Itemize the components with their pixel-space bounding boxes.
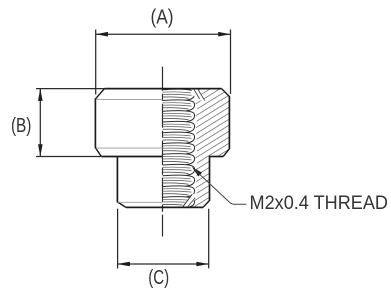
thread leader arrow <box>192 167 202 177</box>
thread leader line <box>194 169 247 204</box>
dimension C line <box>118 263 209 265</box>
dimension C extension line right <box>208 209 210 269</box>
svg-text:(C): (C) <box>148 267 169 289</box>
dimension C extension line left <box>117 209 119 269</box>
dimension B arrow bottom <box>38 144 43 156</box>
svg-text:(A): (A) <box>151 7 174 29</box>
barrel left edge <box>116 157 118 203</box>
dimension A extension line right <box>230 30 232 95</box>
flange bottom-right chamfer <box>223 149 229 157</box>
flange top-left chamfer <box>95 89 104 99</box>
centerline <box>162 67 164 237</box>
thread teeth <box>163 89 195 207</box>
dimension A arrow right <box>218 32 230 37</box>
hole bottom chamfer <box>181 193 198 207</box>
flange right edge <box>228 96 230 149</box>
barrel bottom tangent line <box>118 201 163 203</box>
dimension B line <box>39 89 41 157</box>
dimension B extension line bottom <box>36 156 101 158</box>
dimension A extension line left <box>95 30 97 95</box>
svg-text:M2x0.4 THREAD: M2x0.4 THREAD <box>250 193 389 214</box>
flange top-right chamfer <box>222 89 230 97</box>
flange bottom-left chamfer <box>95 148 101 157</box>
hole top chamfer <box>191 89 206 101</box>
flange left edge <box>94 99 96 149</box>
dimension A line <box>96 33 231 35</box>
dimension A arrow left <box>96 32 108 37</box>
dimension C arrow left <box>118 262 130 267</box>
dimension C arrow right <box>196 262 208 267</box>
barrel right edge section <box>209 156 211 201</box>
section hatch <box>160 34 260 270</box>
flange bottom cut edge <box>210 156 224 158</box>
barrel bottom edge <box>126 206 203 208</box>
dimension B arrow top <box>38 89 43 101</box>
flange top tangent line <box>96 98 163 100</box>
dimension B extension line top <box>36 88 105 90</box>
svg-text:(B): (B) <box>11 115 32 137</box>
flange bottom tangent line <box>96 147 163 149</box>
flange bottom edge left half <box>101 156 162 158</box>
barrel bottom-left chamfer <box>117 202 126 208</box>
barrel bottom-right chamfer <box>203 201 210 208</box>
flange top edge <box>105 88 222 90</box>
